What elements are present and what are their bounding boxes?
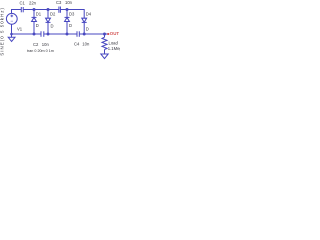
svg-text:C4: C4	[74, 41, 80, 46]
node dot bottom D1	[33, 33, 36, 36]
svg-text:D: D	[86, 26, 89, 31]
svg-text:D4: D4	[86, 11, 92, 16]
diode D3	[65, 10, 70, 35]
capacitor C2	[41, 31, 44, 37]
wire V1 bottom to ground and rail	[11, 24, 13, 37]
svg-text:D3: D3	[69, 11, 75, 16]
diode D2	[46, 10, 51, 35]
svg-text:10n: 10n	[42, 42, 50, 47]
wire bottom rail C4 to OUT	[79, 33, 108, 35]
wire bottom rail left segment	[12, 33, 42, 35]
svg-text:10n: 10n	[65, 0, 73, 5]
node dot resistor tap	[103, 33, 106, 36]
svg-text:SINE(0 5 50kHz): SINE(0 5 50kHz)	[0, 7, 5, 56]
capacitor C1	[21, 7, 23, 12]
junction node dots	[10, 8, 106, 36]
diode D4	[82, 18, 87, 34]
svg-text:Load: Load	[109, 41, 119, 46]
ground under V1	[8, 37, 15, 41]
svg-text:D: D	[51, 24, 54, 29]
svg-text:V1: V1	[17, 27, 23, 32]
capacitor C4	[77, 31, 79, 37]
svg-text:D: D	[69, 23, 72, 28]
node dot top D1	[33, 8, 36, 11]
node dot top D2	[47, 8, 50, 11]
node dot bottom V1	[10, 33, 13, 36]
node dot bottom D4	[83, 33, 86, 36]
voltage source V1	[6, 13, 17, 24]
wire top rail C3 to D4 corner	[60, 10, 84, 19]
capacitor C3	[59, 7, 61, 13]
svg-text:C3: C3	[56, 0, 62, 5]
wire top rail left segment	[12, 10, 22, 14]
svg-text:C2: C2	[33, 42, 39, 47]
node dot bottom D2	[47, 33, 50, 36]
svg-text:D1: D1	[36, 11, 42, 16]
node OUT marker	[107, 31, 119, 36]
wire bottom rail C2 to C4	[44, 33, 77, 35]
svg-text:tran 0 20m 0 1m: tran 0 20m 0 1m	[27, 49, 54, 53]
resistor R Load	[102, 34, 107, 54]
ground under resistor	[101, 54, 108, 59]
svg-text:D2: D2	[50, 11, 56, 16]
svg-text:22n: 22n	[29, 1, 37, 6]
svg-text:OUT: OUT	[110, 31, 120, 36]
node dot bottom D3	[66, 33, 69, 36]
node dot top D3	[66, 8, 69, 11]
svg-text:1.1Meg: 1.1Meg	[108, 46, 120, 51]
diode D1	[32, 10, 37, 35]
svg-text:D: D	[36, 23, 39, 28]
svg-text:C1: C1	[20, 1, 26, 6]
wire top rail C1 to C3	[23, 9, 59, 11]
svg-text:10n: 10n	[82, 41, 90, 46]
